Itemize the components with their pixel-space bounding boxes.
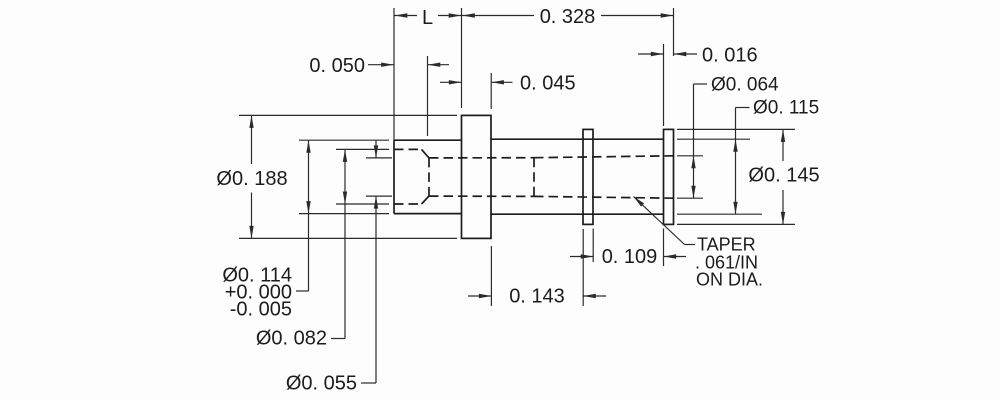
svg-text:0. 045: 0. 045 xyxy=(520,73,576,95)
svg-text:ON DIA.: ON DIA. xyxy=(696,270,763,290)
svg-text:Ø0. 082: Ø0. 082 xyxy=(256,328,327,350)
svg-text:0. 143: 0. 143 xyxy=(509,286,565,308)
svg-text:TAPER: TAPER xyxy=(697,235,756,255)
svg-text:Ø0. 188: Ø0. 188 xyxy=(216,168,287,190)
svg-text:0. 109: 0. 109 xyxy=(602,246,658,268)
svg-text:Ø0. 064: Ø0. 064 xyxy=(711,75,779,96)
svg-text:0. 050: 0. 050 xyxy=(309,55,365,77)
svg-text:Ø0. 055: Ø0. 055 xyxy=(286,373,357,395)
svg-text:Ø0. 145: Ø0. 145 xyxy=(748,165,819,187)
svg-text:0. 328: 0. 328 xyxy=(540,6,596,28)
svg-text:L: L xyxy=(422,7,433,29)
svg-text:Ø0. 115: Ø0. 115 xyxy=(753,98,819,119)
svg-text:-0. 005: -0. 005 xyxy=(230,299,292,321)
svg-text:0. 016: 0. 016 xyxy=(702,45,758,67)
